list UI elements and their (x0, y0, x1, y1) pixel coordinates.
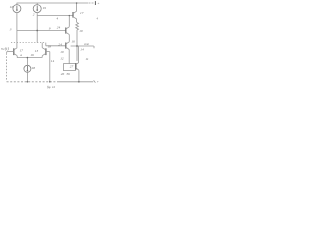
svg-text:27: 27 (70, 64, 74, 68)
svg-text:14: 14 (80, 48, 84, 52)
svg-text:10: 10 (79, 29, 83, 33)
svg-text:24: 24 (58, 43, 62, 47)
svg-text:14: 14 (51, 59, 55, 63)
svg-text:16: 16 (71, 40, 75, 44)
svg-text:+: + (97, 80, 99, 84)
svg-text:10: 10 (60, 50, 64, 54)
svg-text:18: 18 (48, 44, 52, 48)
svg-text:11: 11 (85, 57, 88, 61)
svg-text:13: 13 (35, 49, 39, 53)
svg-text:4: 4 (96, 16, 98, 20)
svg-text:26: 26 (61, 72, 65, 76)
svg-text:16: 16 (10, 5, 14, 9)
svg-text:36: 36 (66, 72, 70, 76)
svg-text:vout: vout (84, 42, 89, 46)
svg-text:18: 18 (32, 66, 36, 70)
svg-text:17: 17 (80, 11, 84, 15)
svg-text:16: 16 (30, 53, 34, 57)
svg-text:3: 3 (10, 27, 12, 31)
svg-text:4: 4 (56, 16, 58, 20)
svg-text:19: 19 (43, 6, 47, 10)
svg-text:2: 2 (33, 12, 35, 16)
svg-text:24: 24 (57, 25, 61, 29)
svg-text:v1(t): v1(t) (1, 46, 9, 51)
svg-text:a: a (20, 53, 22, 57)
svg-text:9: 9 (49, 26, 51, 30)
svg-text:17: 17 (20, 49, 24, 53)
svg-text:+: + (97, 2, 99, 6)
svg-text:12: 12 (60, 56, 64, 60)
svg-text:fig. 12: fig. 12 (47, 85, 56, 89)
